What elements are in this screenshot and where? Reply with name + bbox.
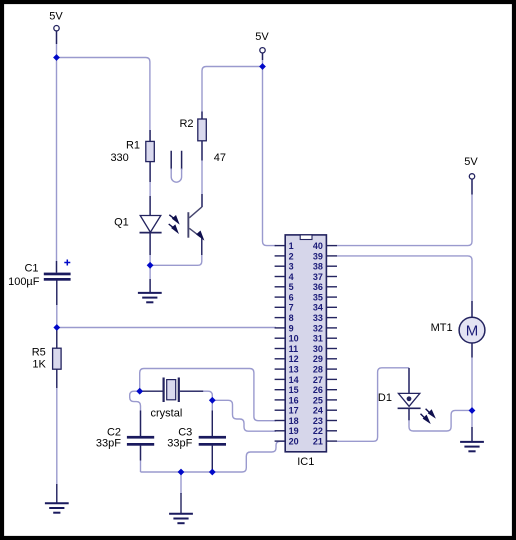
wire bbox=[130, 391, 141, 437]
IC1 pin 29 bbox=[313, 354, 337, 364]
svg-text:21: 21 bbox=[313, 437, 323, 447]
optocoupler Q1 light arrows bbox=[169, 215, 179, 233]
IC1 pin 35 bbox=[313, 292, 337, 302]
IC1 pin 8 bbox=[275, 313, 294, 323]
ground bbox=[169, 514, 193, 523]
wire pin segment bbox=[140, 411, 142, 437]
svg-text:27: 27 bbox=[313, 375, 323, 385]
IC1 pin 15 bbox=[275, 385, 299, 395]
wire pin segment bbox=[56, 280, 58, 305]
svg-text:33pF: 33pF bbox=[167, 437, 192, 449]
svg-text:12: 12 bbox=[289, 354, 299, 364]
wire bbox=[471, 343, 473, 441]
svg-text:D1: D1 bbox=[378, 392, 392, 404]
svg-text:crystal: crystal bbox=[151, 408, 183, 420]
svg-text:13: 13 bbox=[289, 365, 299, 375]
IC1 pin 28 bbox=[313, 365, 337, 375]
svg-text:10: 10 bbox=[289, 334, 299, 344]
wire pin segment bbox=[471, 301, 473, 318]
IC1 pin 24 bbox=[313, 406, 337, 416]
svg-text:3: 3 bbox=[289, 262, 294, 272]
IC1 pin 37 bbox=[313, 272, 337, 282]
svg-text:37: 37 bbox=[313, 272, 323, 282]
svg-text:17: 17 bbox=[289, 406, 299, 416]
svg-text:MT1: MT1 bbox=[431, 322, 453, 334]
IC1 pin 23 bbox=[313, 416, 337, 426]
svg-text:2: 2 bbox=[289, 251, 294, 261]
wire pin segment bbox=[56, 369, 58, 388]
wire bbox=[409, 408, 472, 431]
wire pin segment bbox=[262, 54, 264, 61]
IC1 pin 3 bbox=[275, 262, 294, 272]
LED D1 bbox=[378, 392, 421, 408]
svg-text:35: 35 bbox=[313, 292, 323, 302]
svg-text:33pF: 33pF bbox=[96, 437, 121, 449]
svg-text:4: 4 bbox=[289, 272, 294, 282]
wire bbox=[57, 58, 150, 143]
IC1 pin 11 bbox=[275, 344, 299, 354]
svg-text:47: 47 bbox=[214, 152, 226, 164]
svg-text:8: 8 bbox=[289, 313, 294, 323]
wire pin segment bbox=[140, 390, 163, 392]
svg-text:Q1: Q1 bbox=[114, 217, 129, 229]
wire bbox=[263, 67, 277, 246]
crystal X1 bbox=[151, 378, 183, 420]
wire pin segment bbox=[180, 390, 203, 392]
IC1 pin 27 bbox=[313, 375, 337, 385]
wire pin segment bbox=[471, 427, 473, 441]
IC1 pin 21 bbox=[313, 437, 337, 447]
svg-text:R2: R2 bbox=[179, 118, 193, 130]
svg-text:26: 26 bbox=[313, 385, 323, 395]
svg-text:5V: 5V bbox=[255, 31, 269, 43]
IC1 pin 40 bbox=[313, 241, 337, 251]
ground bbox=[45, 503, 69, 512]
ground bbox=[138, 293, 162, 302]
motor MT1 bbox=[431, 317, 485, 343]
wire bbox=[337, 368, 409, 442]
wire pin segment bbox=[471, 343, 473, 358]
svg-text:1: 1 bbox=[289, 241, 294, 251]
power terminal 5V bbox=[255, 31, 269, 53]
svg-text:IC1: IC1 bbox=[297, 456, 314, 468]
svg-text:14: 14 bbox=[289, 375, 299, 385]
junction node bbox=[147, 262, 154, 269]
wire bbox=[211, 446, 213, 473]
junction node bbox=[469, 407, 476, 414]
optocoupler Q1 phototransistor bbox=[187, 207, 203, 239]
capacitor C3 bbox=[167, 426, 226, 449]
svg-text:25: 25 bbox=[313, 395, 323, 405]
wire pin segment bbox=[56, 31, 58, 44]
svg-text:16: 16 bbox=[289, 395, 299, 405]
wire pin segment bbox=[140, 446, 142, 461]
svg-text:15: 15 bbox=[289, 385, 299, 395]
svg-text:36: 36 bbox=[313, 282, 323, 292]
wire bbox=[140, 369, 276, 421]
wire pin segment bbox=[56, 484, 58, 503]
junction node bbox=[53, 324, 60, 331]
svg-text:19: 19 bbox=[289, 426, 299, 436]
wire pin segment bbox=[149, 130, 151, 182]
IC1 pin 36 bbox=[313, 282, 337, 292]
resistor R2 bbox=[179, 118, 226, 164]
junction node bbox=[53, 54, 60, 61]
IC1 pin 39 bbox=[313, 251, 337, 261]
wire pin segment bbox=[471, 180, 473, 195]
wire bbox=[180, 472, 182, 494]
wire bbox=[337, 180, 472, 246]
svg-text:22: 22 bbox=[313, 426, 323, 436]
IC1 pin 25 bbox=[313, 395, 337, 405]
wire bbox=[149, 233, 151, 293]
svg-text:34: 34 bbox=[313, 303, 323, 313]
wire bbox=[56, 281, 58, 349]
wire pin segment bbox=[211, 446, 213, 470]
svg-text:20: 20 bbox=[289, 437, 299, 447]
svg-text:330: 330 bbox=[110, 152, 128, 164]
wire bbox=[150, 238, 202, 265]
IC1 pin 31 bbox=[313, 334, 337, 344]
IC1 pin 34 bbox=[313, 303, 337, 313]
svg-text:31: 31 bbox=[313, 334, 323, 344]
wire pin segment bbox=[149, 233, 151, 255]
IC1 pin 26 bbox=[313, 385, 337, 395]
LED D1 light arrows bbox=[421, 409, 435, 423]
svg-text:24: 24 bbox=[313, 406, 323, 416]
IC1 pin 30 bbox=[313, 344, 337, 354]
IC1 pin 16 bbox=[275, 395, 299, 405]
IC1 pin 2 bbox=[275, 251, 294, 261]
ground bbox=[460, 442, 484, 451]
junction node bbox=[209, 469, 216, 476]
resistor R5 bbox=[32, 346, 61, 370]
wire bbox=[201, 141, 203, 207]
optocoupler Q1 LED bbox=[114, 216, 161, 233]
IC1 pin 19 bbox=[275, 426, 299, 436]
svg-text:29: 29 bbox=[313, 354, 323, 364]
IC1 pin 9 bbox=[275, 323, 294, 333]
svg-text:11: 11 bbox=[289, 344, 299, 354]
wire bbox=[408, 368, 410, 394]
svg-text:23: 23 bbox=[313, 416, 323, 426]
IC1 pin 32 bbox=[313, 323, 337, 333]
wire bbox=[212, 400, 276, 431]
wire bbox=[57, 327, 276, 329]
wire pin segment bbox=[149, 279, 151, 293]
power terminal 5V bbox=[464, 156, 478, 179]
wire bbox=[211, 400, 213, 437]
resistor R1 bbox=[110, 140, 154, 164]
svg-text:R1: R1 bbox=[126, 140, 140, 152]
IC1 pin 17 bbox=[275, 406, 299, 416]
wire pin segment bbox=[149, 196, 151, 216]
IC1 pin 10 bbox=[275, 334, 299, 344]
capacitor C1 bbox=[8, 260, 71, 289]
power terminal 5V bbox=[49, 11, 63, 31]
svg-text:9: 9 bbox=[289, 323, 294, 333]
svg-text:1K: 1K bbox=[32, 359, 46, 371]
IC1 pin 7 bbox=[275, 303, 294, 313]
IC1 pin 12 bbox=[275, 354, 299, 364]
wire bbox=[140, 446, 142, 473]
junction node bbox=[178, 469, 185, 476]
svg-text:18: 18 bbox=[289, 416, 299, 426]
IC1 pin 6 bbox=[275, 292, 294, 302]
svg-text:R5: R5 bbox=[32, 346, 46, 358]
svg-text:39: 39 bbox=[313, 251, 323, 261]
svg-text:33: 33 bbox=[313, 313, 323, 323]
wire bbox=[56, 31, 58, 272]
capacitor C2 bbox=[96, 426, 154, 449]
wire pin segment bbox=[211, 411, 213, 437]
IC1 pin 22 bbox=[313, 426, 337, 436]
svg-text:6: 6 bbox=[289, 292, 294, 302]
IC1 pin 4 bbox=[275, 272, 294, 282]
junction node bbox=[136, 388, 143, 395]
wire pin segment bbox=[56, 261, 58, 273]
wire pin segment bbox=[180, 493, 182, 514]
IC1 pin 33 bbox=[313, 313, 337, 323]
junction node bbox=[259, 63, 266, 70]
IC1 pin 1 bbox=[275, 241, 294, 251]
svg-text:C1: C1 bbox=[24, 263, 38, 275]
wire bbox=[149, 161, 151, 215]
svg-text:M: M bbox=[466, 322, 479, 339]
op IC1 40-pin body bbox=[285, 235, 326, 468]
svg-text:32: 32 bbox=[313, 323, 323, 333]
IC1 pin 13 bbox=[275, 365, 299, 375]
svg-text:30: 30 bbox=[313, 344, 323, 354]
IC1 pin 18 bbox=[275, 416, 299, 426]
wire bbox=[141, 441, 287, 472]
IC1 pin 14 bbox=[275, 375, 299, 385]
wire bbox=[181, 391, 213, 400]
IC1 pin 38 bbox=[313, 262, 337, 272]
svg-text:100µF: 100µF bbox=[8, 276, 40, 288]
wire pin segment bbox=[408, 408, 410, 420]
wire pin segment bbox=[408, 368, 410, 394]
opto interrupter slot bbox=[171, 151, 181, 182]
svg-text:28: 28 bbox=[313, 365, 323, 375]
svg-text:5: 5 bbox=[289, 282, 294, 292]
wire bbox=[262, 54, 264, 67]
svg-text:40: 40 bbox=[313, 241, 323, 251]
wire pin segment bbox=[201, 112, 203, 161]
junction node bbox=[209, 397, 216, 404]
wire bbox=[56, 369, 58, 502]
wire pin segment bbox=[201, 194, 203, 207]
svg-text:38: 38 bbox=[313, 262, 323, 272]
wire bbox=[337, 256, 472, 317]
IC1 pin 5 bbox=[275, 282, 294, 292]
IC1 pin 20 bbox=[275, 437, 299, 447]
svg-text:5V: 5V bbox=[49, 11, 63, 23]
wire pin segment bbox=[201, 238, 203, 255]
wire bbox=[202, 67, 263, 121]
svg-text:7: 7 bbox=[289, 303, 294, 313]
svg-text:5V: 5V bbox=[464, 156, 478, 168]
wire pin segment bbox=[56, 328, 58, 350]
